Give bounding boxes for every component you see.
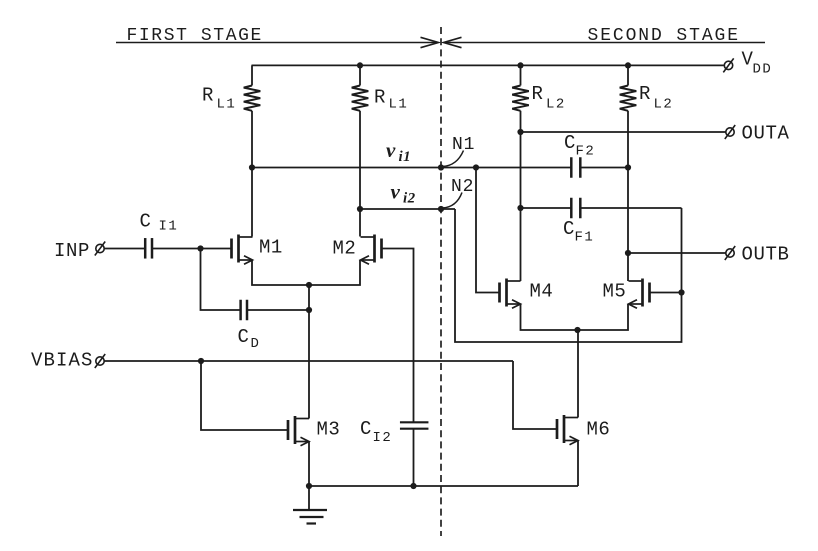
node: CD / tail column junction [306,307,312,313]
svg-text:OUTA: OUTA [742,123,790,145]
label CI1 [140,211,179,235]
ground symbol [293,486,327,524]
svg-text:L1: L1 [217,97,237,113]
wire tail node to M6 drain [577,330,579,418]
stage boundary dashed line [440,27,442,536]
svg-text:M2: M2 [333,238,357,260]
capacitor CF2 [571,157,628,178]
label RL1 left [202,85,236,113]
label SECOND STAGE [588,26,740,46]
svg-text:C: C [360,418,371,440]
resistor RL1 right [352,65,369,236]
wire VBIAS branch to M3 gate [201,361,288,430]
svg-text:OUTB: OUTB [742,244,790,266]
svg-text:C: C [563,218,574,240]
node: VDD / RL1-right junction [357,62,363,68]
node N2 [438,206,444,212]
label OUTA [742,123,790,145]
label OUTB [742,244,790,266]
node: M4/M5 common source [574,327,580,333]
node: OUTA / RL2-left junction [517,129,523,135]
wire M1 gate node down to CD [201,249,241,311]
capacitor CI1 [145,238,152,258]
label vi1 [386,138,411,165]
wire vi2 line (M2 drain to N2) [360,208,455,210]
node: M5 gate junction [678,289,684,295]
svg-text:C: C [564,132,575,154]
svg-text:N1: N1 [452,135,475,155]
wire vi1 line (M1 drain to CF2) [252,167,571,169]
label M2 [333,238,357,260]
label M5 [603,281,627,303]
wire OUTB [628,252,726,254]
wire OUTA [521,131,726,133]
wire M5 source to tail node [578,304,629,330]
terminal OUTA [725,125,735,139]
label M4 [530,281,554,303]
svg-text:L1: L1 [389,97,409,113]
svg-text:L2: L2 [654,97,674,113]
wire VDD rail [252,64,725,66]
svg-text:I1: I1 [159,219,179,235]
label M6 [587,419,611,441]
terminal VBIAS [95,354,105,368]
svg-text:INP: INP [54,240,90,262]
resistor RL2 right [620,65,637,281]
terminal VDD [723,58,733,72]
svg-text:C: C [238,326,249,348]
wire VBIAS rail [105,360,514,362]
wire ground rail to M6 source [309,485,578,487]
transistor M3 [288,416,309,446]
label RL1 right [374,87,408,113]
svg-text:M6: M6 [587,419,611,441]
svg-text:D: D [251,336,259,352]
svg-text:R: R [202,85,213,107]
wire M3 source to ground node [308,442,310,487]
node: VDD / RL2-left junction [517,62,523,68]
svg-text:L2: L2 [546,97,566,113]
svg-text:I2: I2 [373,430,393,446]
svg-text:DD: DD [753,62,773,78]
wire INP to CI1 [105,248,146,250]
wire M1 source down to common node [252,260,309,285]
label CF2 [564,132,595,160]
transistor M4 [500,279,521,309]
wire VBIAS branch to M6 gate [513,361,557,429]
svg-text:v: v [391,180,401,204]
svg-text:SECOND STAGE: SECOND STAGE [588,26,740,46]
svg-text:M1: M1 [259,237,283,259]
svg-text:i2: i2 [403,191,416,207]
node: VBIAS / M3 gate branch [198,358,204,364]
svg-text:M4: M4 [530,281,554,303]
node: CI2 / ground rail junction [410,483,416,489]
capacitor CI2 [400,422,429,428]
wire CI2 to ground rail [413,429,415,486]
header dimension line FIRST STAGE [116,37,439,47]
label RL2 left [532,83,566,113]
svg-text:FIRST STAGE: FIRST STAGE [127,26,263,46]
node: M1 gate / CD branch [197,245,203,251]
label M1 [259,237,283,259]
label VDD [742,49,773,78]
label vi2 [391,180,416,207]
transistor M5 [629,279,650,309]
svg-text:M3: M3 [317,419,341,441]
label N1 with pointer arc [443,135,476,167]
label VBIAS [31,350,94,372]
label CF1 [563,218,594,246]
label CI2 [360,418,392,446]
node: ground junction at M3 source [306,483,312,489]
label M3 [317,419,341,441]
node: CF1 / RL2-left junction [517,205,523,211]
svg-text:i1: i1 [399,149,412,165]
node: CF2 / RL2-right junction [625,164,631,170]
terminal INP [95,242,105,256]
wire N2 route to M5 gate column [455,208,682,342]
svg-text:R: R [532,83,543,105]
header dimension line SECOND STAGE [444,37,766,47]
label FIRST STAGE [127,26,263,46]
svg-text:v: v [386,138,396,162]
capacitor CF1 with wire [521,198,682,219]
label N2 with pointer arc [443,177,475,208]
wire tail column (common source to M3 drain) [308,285,310,419]
transistor M2 [361,235,382,265]
node: vi1 at RL1-left / M1 drain [249,164,255,170]
svg-text:R: R [374,87,385,109]
svg-text:N2: N2 [451,177,474,197]
node: vi2 at RL1-right / M2 drain [357,206,363,212]
svg-text:F2: F2 [576,144,596,160]
terminal OUTB [725,246,735,260]
node: vi1 / M4-gate branch [473,164,479,170]
label RL2 right [639,83,673,113]
svg-text:VBIAS: VBIAS [31,350,94,372]
wire M2 source down to common node [310,260,361,285]
label INP [54,240,90,262]
wire M2 gate to CI2 column [382,249,414,423]
wire M6 source to ground rail [577,441,579,487]
svg-text:F1: F1 [575,230,595,246]
wire N1 branch down to M4 gate [476,168,500,293]
wire M4 source to tail node [521,304,578,330]
label CD [238,326,259,352]
wire CD to tail column [247,309,309,311]
node: VDD / RL2-right junction [625,62,631,68]
node: M1/M2 common source [306,282,312,288]
transistor M1 [232,235,253,265]
wire CI1 to M1 gate [152,248,232,250]
svg-text:C: C [140,211,151,233]
transistor M6 [557,415,578,445]
capacitor CD [241,300,247,321]
svg-text:M5: M5 [603,281,627,303]
wire M5 gate [650,292,682,294]
resistor RL1 left [244,65,261,236]
resistor RL2 left [512,65,529,281]
svg-text:R: R [639,83,650,105]
node: OUTB / RL2-right junction [625,250,631,256]
node N1 [438,164,444,170]
